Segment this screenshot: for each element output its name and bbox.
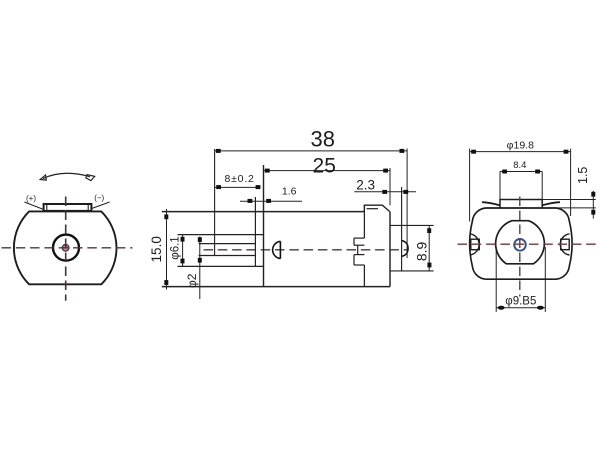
extension line right end [406, 149, 408, 259]
rear shaft end [402, 241, 409, 257]
shaft tip + extension line [214, 149, 216, 256]
svg-text:8.9: 8.9 [413, 241, 429, 261]
svg-text:25: 25 [313, 155, 336, 178]
svg-text:φ19.8: φ19.8 [507, 139, 534, 151]
dim 25 [264, 170, 391, 172]
svg-text:2.3: 2.3 [356, 178, 375, 193]
left terminal notch [470, 234, 479, 255]
rear boss top edge + extension [390, 224, 434, 226]
motor body front outline [14, 211, 117, 284]
dim 1.6 [240, 200, 302, 202]
svg-text:1.6: 1.6 [282, 185, 297, 197]
shaft end inside can [273, 241, 281, 258]
rear boss face [401, 187, 403, 271]
tab wing right [542, 202, 560, 205]
svg-text:8±0.2: 8±0.2 [224, 173, 254, 185]
dim phi9.B5 [495, 247, 497, 312]
front bearing boss circle [53, 235, 79, 261]
centerline vertical front view [65, 197, 67, 301]
rear bearing block [354, 238, 364, 265]
right terminal notch [560, 234, 569, 255]
dim 8±0.2 [215, 186, 261, 188]
top tab [500, 200, 542, 209]
terminal block [44, 204, 92, 211]
boss front face [254, 197, 256, 266]
leader line left [25, 202, 44, 209]
can front face [263, 165, 265, 287]
svg-text:φ9.B5: φ9.B5 [505, 296, 536, 308]
shaft hole [514, 239, 526, 251]
dim 2.3 [354, 191, 416, 193]
end cap joint line [363, 205, 365, 286]
shaft top line [199, 243, 256, 245]
centerline vertical rear view [519, 197, 521, 297]
left terminal [471, 239, 480, 250]
end cap top tab [364, 205, 390, 212]
dim 38 [215, 150, 408, 152]
svg-text:38: 38 [311, 126, 335, 151]
leader line right [91, 202, 109, 209]
shaft end circle [62, 245, 69, 252]
svg-text:1.5: 1.5 [576, 167, 590, 184]
shaft bottom line [199, 255, 256, 257]
svg-text:φ2: φ2 [185, 273, 199, 288]
dim 15.0 [166, 209, 168, 290]
dim phi19.8 [469, 149, 471, 222]
dim 1.5 [542, 199, 596, 201]
tab inner line [367, 208, 378, 210]
centerline horizontal front view [2, 247, 133, 249]
right terminal [561, 239, 570, 250]
dim 8.4 [499, 172, 501, 200]
tab wing left [482, 202, 500, 205]
bearing boss top line [178, 234, 264, 236]
centerline horizontal rear view [458, 243, 598, 245]
rear boss bottom edge + extension [390, 270, 434, 272]
svg-text:8.4: 8.4 [513, 160, 526, 171]
bearing boss bottom line [178, 265, 264, 267]
extension line cap face [389, 168, 391, 205]
can top edge + extension [162, 211, 365, 213]
dim 8.9 [428, 225, 430, 271]
dim phi6.1 [182, 235, 184, 267]
rear body outline [470, 208, 572, 279]
end cap right face [389, 212, 391, 287]
svg-text:φ6.1: φ6.1 [169, 236, 181, 259]
svg-text:15.0: 15.0 [149, 236, 164, 262]
svg-text:(+): (+) [26, 194, 36, 203]
rotation arc [40, 173, 95, 180]
centerline horizontal side view [204, 249, 409, 251]
svg-text:(−): (−) [94, 193, 104, 202]
dim phi2 [199, 237, 201, 300]
rear boss outline [496, 221, 545, 264]
can bottom edge + extension [162, 286, 390, 288]
